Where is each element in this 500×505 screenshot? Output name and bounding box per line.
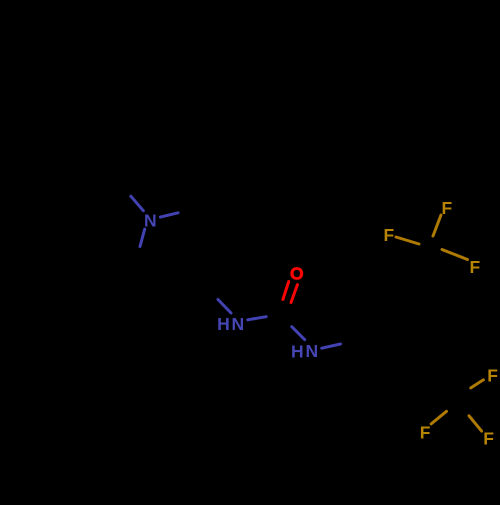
svg-text:F: F [384, 225, 395, 245]
wire: bond C(carbonyl)-HN2 half-segment [292, 327, 305, 340]
svg-text:N: N [305, 341, 318, 361]
svg-text:F: F [420, 423, 431, 443]
svg-text:F: F [470, 257, 481, 277]
wire: bond N1-C(right) half-segment [160, 213, 178, 217]
svg-text:H: H [217, 314, 230, 334]
wire: bond C-F (top CF3, to left F) half-segment [396, 237, 419, 244]
wire: bond HN1-CH upper-left half-segment [218, 300, 231, 314]
svg-text:F: F [487, 366, 498, 386]
wire: bond C-F (top CF3, to top F) half-segment [433, 215, 441, 236]
wire: C=O double bond, left stroke (red half) [283, 282, 289, 300]
wire: C=O double bond, right stroke (red half) [291, 285, 297, 303]
wire: bond HN2-C(aryl) half-segment [322, 344, 341, 348]
wire: bond N1-C(down) half-segment [140, 229, 145, 246]
svg-text:O: O [290, 263, 304, 283]
wire: bond N1-CH2(benzyl) upper-left half-segment [131, 196, 144, 211]
wire: bond C-F (bottom CF3, to upper-right F) half-segment [471, 380, 484, 388]
svg-text:N: N [231, 314, 244, 334]
wire: bond C-F (bottom CF3, to lower-right F) half-segment [469, 416, 482, 431]
wire: bond HN1-C(carbonyl) half-segment [248, 317, 267, 320]
svg-text:H: H [291, 341, 304, 361]
svg-text:F: F [483, 429, 494, 449]
wire: bond C-F (top CF3, to lower-right F) half-segment [442, 250, 468, 260]
wire: bond C-F (bottom CF3, to lower-left F) half-segment [431, 411, 446, 424]
svg-text:N: N [144, 210, 157, 230]
svg-text:F: F [442, 198, 453, 218]
